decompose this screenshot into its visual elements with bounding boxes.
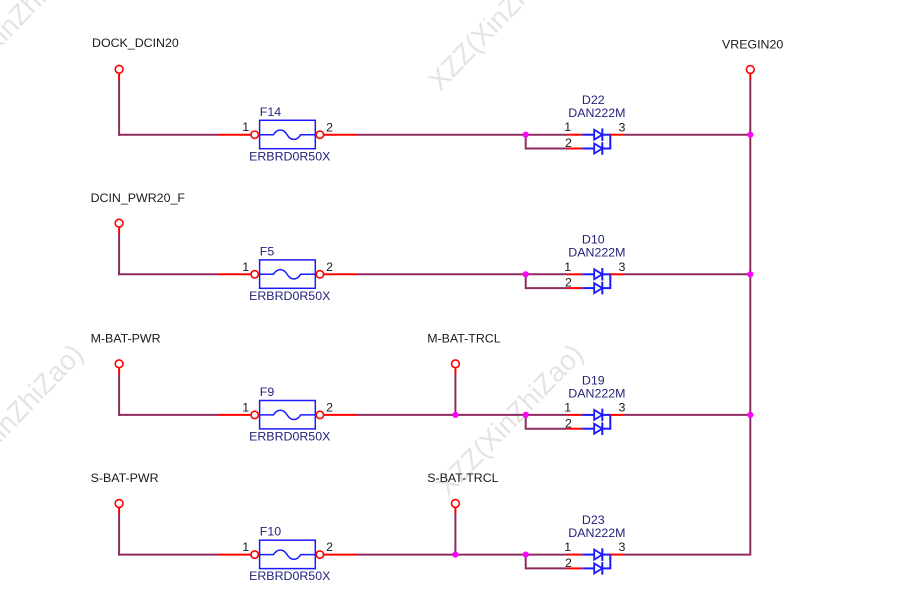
svg-text:XZZ(XinZhiZao): XZZ(XinZhiZao) xyxy=(422,0,581,96)
svg-text:S-BAT-PWR: S-BAT-PWR xyxy=(91,471,159,485)
wire xyxy=(624,414,752,416)
svg-text:1: 1 xyxy=(242,400,249,414)
svg-text:1: 1 xyxy=(564,400,571,414)
wire xyxy=(118,228,120,234)
junction xyxy=(452,552,458,558)
svg-text:D22: D22 xyxy=(582,93,605,107)
wire xyxy=(217,134,251,136)
terminal DCIN_PWR20_F xyxy=(115,219,123,227)
wire xyxy=(624,273,752,275)
wire xyxy=(568,273,583,275)
wire xyxy=(624,554,752,556)
wire xyxy=(454,368,456,374)
wire xyxy=(217,414,251,416)
wire xyxy=(324,414,359,416)
svg-text:DOCK_DCIN20: DOCK_DCIN20 xyxy=(92,36,179,50)
wire xyxy=(455,414,525,416)
wire xyxy=(454,508,456,514)
svg-text:M-BAT-TRCL: M-BAT-TRCL xyxy=(427,332,501,346)
svg-text:DAN222M: DAN222M xyxy=(568,246,625,260)
wire xyxy=(455,554,525,556)
svg-text:ERBRD0R50X: ERBRD0R50X xyxy=(249,289,330,303)
svg-text:D19: D19 xyxy=(582,373,605,387)
wire xyxy=(568,134,583,136)
wire xyxy=(118,234,120,275)
wire xyxy=(358,134,526,136)
wire xyxy=(568,428,583,430)
wire xyxy=(454,514,456,555)
svg-text:1: 1 xyxy=(242,120,249,134)
wire xyxy=(526,414,568,416)
svg-text:2: 2 xyxy=(326,260,333,274)
wire xyxy=(118,554,217,556)
terminal M-BAT-PWR xyxy=(115,360,123,368)
wire xyxy=(526,135,568,149)
svg-text:DAN222M: DAN222M xyxy=(568,106,625,120)
svg-text:2: 2 xyxy=(565,136,572,150)
svg-text:3: 3 xyxy=(619,260,626,274)
wire xyxy=(568,148,583,150)
svg-text:ERBRD0R50X: ERBRD0R50X xyxy=(249,569,330,583)
wire xyxy=(118,273,217,275)
wire xyxy=(118,508,120,514)
dual diode D10 xyxy=(582,268,610,294)
wire xyxy=(610,414,623,416)
fuse F14 xyxy=(251,120,324,148)
svg-text:F9: F9 xyxy=(260,385,275,399)
wire xyxy=(118,134,217,136)
svg-text:DCIN_PWR20_F: DCIN_PWR20_F xyxy=(91,191,186,205)
wire VREGIN20 bus xyxy=(749,80,751,554)
wire xyxy=(749,74,751,80)
svg-text:2: 2 xyxy=(326,540,333,554)
wire xyxy=(118,414,217,416)
svg-text:XZZ(XinZhiZao): XZZ(XinZhiZao) xyxy=(0,338,89,501)
svg-text:ERBRD0R50X: ERBRD0R50X xyxy=(249,430,330,444)
svg-text:2: 2 xyxy=(326,120,333,134)
wire xyxy=(358,414,455,416)
wire xyxy=(358,273,526,275)
wire xyxy=(454,374,456,415)
wire xyxy=(526,415,568,429)
terminal M-BAT-TRCL xyxy=(452,360,460,368)
svg-text:DAN222M: DAN222M xyxy=(568,526,625,540)
svg-text:2: 2 xyxy=(565,276,572,290)
svg-text:1: 1 xyxy=(564,120,571,134)
svg-text:F10: F10 xyxy=(260,525,281,539)
wire xyxy=(118,374,120,416)
wire xyxy=(324,273,359,275)
wire xyxy=(526,554,568,556)
svg-text:2: 2 xyxy=(326,401,333,415)
wire xyxy=(610,134,623,136)
svg-text:1: 1 xyxy=(242,260,249,274)
wire xyxy=(324,554,359,556)
svg-text:F14: F14 xyxy=(260,105,281,119)
svg-text:3: 3 xyxy=(619,120,626,134)
wire xyxy=(118,74,120,80)
wire xyxy=(118,80,120,136)
svg-text:1: 1 xyxy=(242,540,249,554)
terminal S-BAT-PWR xyxy=(115,500,123,508)
junction xyxy=(747,271,753,277)
svg-text:DAN222M: DAN222M xyxy=(568,386,625,400)
fuse F5 xyxy=(251,260,324,288)
wire xyxy=(526,273,568,275)
wire xyxy=(610,554,623,556)
terminal S-BAT-TRCL xyxy=(452,500,460,508)
wire xyxy=(568,554,583,556)
wire xyxy=(624,134,752,136)
junction xyxy=(523,552,529,558)
junction xyxy=(747,132,753,138)
wire xyxy=(610,273,623,275)
svg-text:1: 1 xyxy=(564,260,571,274)
dual diode D19 xyxy=(582,409,610,435)
svg-text:3: 3 xyxy=(619,540,626,554)
wire xyxy=(217,554,251,556)
wire xyxy=(118,514,120,556)
svg-text:3: 3 xyxy=(619,401,626,415)
wire xyxy=(568,287,583,289)
svg-text:ERBRD0R50X: ERBRD0R50X xyxy=(249,149,330,163)
svg-text:S-BAT-TRCL: S-BAT-TRCL xyxy=(427,471,498,485)
junction xyxy=(747,412,753,418)
svg-text:D10: D10 xyxy=(582,233,605,247)
junction xyxy=(452,412,458,418)
svg-text:2: 2 xyxy=(565,556,572,570)
wire xyxy=(568,414,583,416)
dual diode D22 xyxy=(582,128,610,154)
svg-text:XZZ(XinZhiZao): XZZ(XinZhiZao) xyxy=(0,0,91,104)
terminal DOCK_DCIN20 xyxy=(115,65,123,73)
junction xyxy=(523,412,529,418)
wire xyxy=(118,368,120,374)
wire xyxy=(526,134,568,136)
svg-text:F5: F5 xyxy=(260,244,275,258)
wire xyxy=(358,554,455,556)
svg-text:1: 1 xyxy=(564,540,571,554)
wire xyxy=(568,567,583,569)
wire xyxy=(526,555,568,569)
fuse F10 xyxy=(251,540,324,568)
junction xyxy=(523,271,529,277)
fuse F9 xyxy=(251,401,324,429)
svg-text:VREGIN20: VREGIN20 xyxy=(722,38,783,52)
svg-text:M-BAT-PWR: M-BAT-PWR xyxy=(91,332,161,346)
wire xyxy=(324,134,359,136)
svg-text:2: 2 xyxy=(565,416,572,430)
wire xyxy=(217,273,251,275)
terminal VREGIN20 xyxy=(746,66,754,74)
dual diode D23 xyxy=(582,548,610,574)
junction xyxy=(523,132,529,138)
wire xyxy=(526,274,568,288)
svg-text:D23: D23 xyxy=(582,513,605,527)
